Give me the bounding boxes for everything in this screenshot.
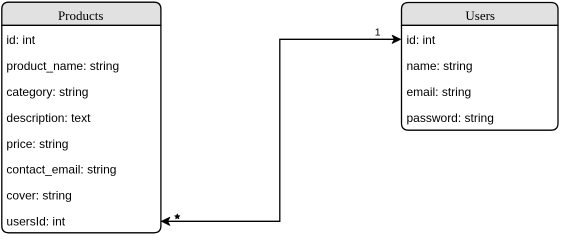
- svg-text:contact_email: string: contact_email: string: [6, 163, 116, 177]
- svg-text:email: string: email: string: [407, 85, 472, 99]
- svg-text:description: text: description: text: [6, 111, 91, 125]
- svg-text:price: string: price: string: [6, 137, 68, 151]
- svg-text:cover: string: cover: string: [6, 189, 71, 203]
- svg-text:category: string: category: string: [6, 85, 88, 99]
- svg-text:Products: Products: [58, 8, 104, 23]
- svg-text:product_name: string: product_name: string: [6, 59, 119, 73]
- svg-text:Users: Users: [465, 8, 495, 23]
- svg-text:usersId: int: usersId: int: [6, 215, 65, 229]
- svg-text:id: int: id: int: [407, 33, 436, 47]
- svg-text:id: int: id: int: [6, 33, 35, 47]
- svg-text:password: string: password: string: [407, 111, 494, 125]
- svg-text:name: string: name: string: [407, 59, 473, 73]
- svg-text:1: 1: [375, 27, 381, 39]
